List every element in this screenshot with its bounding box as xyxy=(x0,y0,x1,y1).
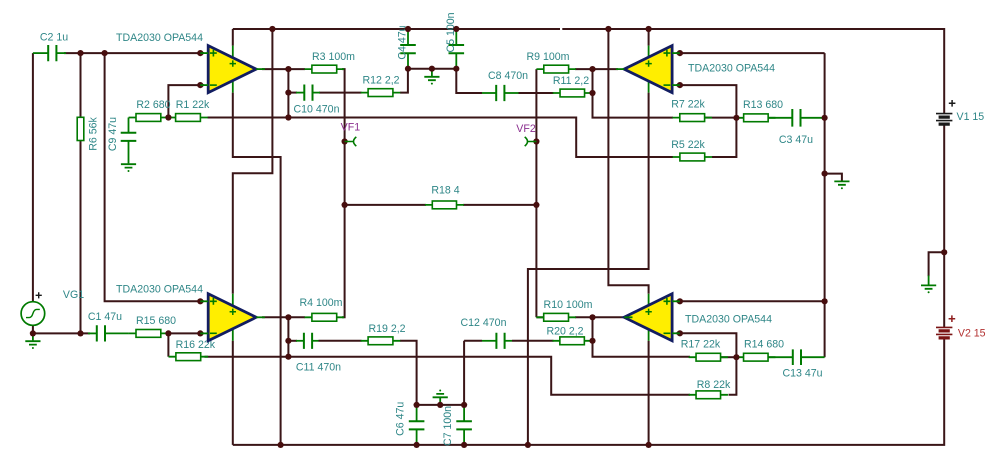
node supply mid ground tap xyxy=(941,249,947,255)
resistor R13 xyxy=(736,114,775,122)
wire C9 top lead from R2 xyxy=(128,118,130,134)
svg-text:C7 100n: C7 100n xyxy=(442,406,454,446)
resistor R5 xyxy=(673,153,713,161)
wire R12 right corner up to C4 node xyxy=(400,69,408,93)
svg-text:R4 100m: R4 100m xyxy=(300,297,343,309)
svg-text:R13 680: R13 680 xyxy=(743,99,783,111)
wire C2 right lead xyxy=(56,52,66,54)
node C3 right / right column xyxy=(822,115,828,121)
ground right of C3 xyxy=(834,181,849,189)
op-amp U4 TDA2030 OPA544 xyxy=(624,294,672,341)
svg-text:R12 2,2: R12 2,2 xyxy=(362,75,399,87)
node C3 ground tap xyxy=(822,171,828,177)
node U4 + input / right column xyxy=(822,298,828,304)
wire op-amp U1 V+ pin to rail xyxy=(232,29,234,46)
node VG1 / C1 row xyxy=(30,330,36,336)
wire C10 lead from branch xyxy=(288,92,297,94)
wire U3 + input pin stub xyxy=(200,300,208,302)
svg-text:VG1: VG1 xyxy=(63,289,84,301)
wire C8 left lead xyxy=(482,92,496,94)
wire C2 to U1 + input xyxy=(64,52,204,54)
node C4 bottom / R12 xyxy=(405,66,411,72)
capacitor C5 xyxy=(449,45,465,53)
capacitor C8 xyxy=(496,85,504,101)
resistor R8 xyxy=(689,391,728,399)
wire supply mid-point ground stem xyxy=(929,252,945,276)
wire C12 to R20 xyxy=(512,340,554,342)
wire R3 right corner down VF1 R18 to R4 right xyxy=(342,69,345,317)
node C5 bottom / C8 xyxy=(453,66,459,72)
op-amp U2 TDA2030 OPA544 xyxy=(624,46,672,93)
svg-text:R3 100m: R3 100m xyxy=(312,51,355,63)
capacitor C1 xyxy=(97,325,105,341)
wire C8 right lead xyxy=(504,92,518,94)
svg-text:TDA2030 OPA544: TDA2030 OPA544 xyxy=(116,284,203,296)
wire U2 - input pin stub xyxy=(672,84,680,86)
wire U1 output row xyxy=(262,68,288,70)
svg-text:TDA2030 OPA544: TDA2030 OPA544 xyxy=(685,314,772,326)
wire C12 left corner down to ground node xyxy=(463,341,465,405)
wire R7 right lead to junction xyxy=(705,117,736,119)
resistor R4 xyxy=(305,313,345,321)
wire U2 V+ pin to rail xyxy=(648,29,650,46)
op-amp U3 TDA2030 OPA544 xyxy=(208,294,256,341)
wire C9 branch vertical to U3 + input xyxy=(105,53,204,301)
svg-text:R2 680: R2 680 xyxy=(136,99,170,111)
node U4 - input pin xyxy=(677,330,683,336)
node bottom rail / C7 xyxy=(461,442,467,448)
node VF1 test point xyxy=(342,138,348,144)
node R15 / R16 branch xyxy=(165,330,171,336)
wire C3 left lead xyxy=(768,117,792,119)
node R18 left / VF1 column xyxy=(342,202,348,208)
node R11 right xyxy=(589,90,595,96)
node bottom rail / C6 xyxy=(414,442,420,448)
wire R16 long row to R8 jog xyxy=(205,357,691,395)
node R18 right / VF2 column xyxy=(533,202,539,208)
node C2 / C9 branch xyxy=(102,50,108,56)
svg-text:R5 22k: R5 22k xyxy=(671,139,705,151)
wire C1 left lead xyxy=(88,332,97,334)
svg-text:R9 100m: R9 100m xyxy=(527,51,570,63)
svg-text:R11 2,2: R11 2,2 xyxy=(553,75,589,87)
wire top V+ rail (right segment) and V1 feed xyxy=(562,29,944,114)
node U2 - input pin xyxy=(677,82,683,88)
capacitor C10 xyxy=(304,85,312,101)
wire U4 V- pin to bottom rail xyxy=(648,341,650,445)
wire op-amp U3 V- pin down to bottom rail xyxy=(232,341,234,445)
node R10 / U4 output xyxy=(589,314,595,320)
wire U2 + input to right column xyxy=(676,52,825,54)
wire C3 right lead xyxy=(801,117,825,119)
wire U2 - input to R7 junction xyxy=(676,85,736,118)
wire U1 output to R3 xyxy=(288,68,305,70)
resistor R10 xyxy=(536,313,576,321)
wire R9 left corner / VF2 column xyxy=(535,69,537,317)
capacitor C11 xyxy=(304,333,312,349)
ground below C4 C5 xyxy=(424,77,439,85)
svg-text:R7 22k: R7 22k xyxy=(671,99,705,111)
ground below VG1 xyxy=(25,341,40,349)
wire U1 output stub xyxy=(256,68,265,70)
capacitor C2 xyxy=(48,45,56,61)
capacitor C13 xyxy=(793,349,801,365)
node ground row / C6 xyxy=(414,402,420,408)
wire R9 to U2 output xyxy=(575,68,618,70)
resistor R15 xyxy=(129,330,169,338)
node R17 / R14 / R8 xyxy=(733,354,739,360)
wire C5 bottom lead xyxy=(455,54,457,69)
node C2 / R6 branch xyxy=(77,50,83,56)
wire R16 branch down xyxy=(167,333,169,356)
node R9 / U2 output xyxy=(589,66,595,72)
svg-text:C6 47u: C6 47u xyxy=(394,402,406,436)
wire U3 - input pin stub xyxy=(200,332,208,334)
svg-text:R1 22k: R1 22k xyxy=(176,99,210,111)
svg-text:C9 47u: C9 47u xyxy=(107,117,119,151)
resistor R6 xyxy=(77,117,84,140)
wire C6 bottom lead xyxy=(416,430,418,445)
generator VG1 xyxy=(21,302,45,326)
node decoupling ground xyxy=(429,66,435,72)
svg-text:R19 2,2: R19 2,2 xyxy=(368,323,405,335)
battery V1 xyxy=(936,114,952,125)
node bottom rail / U4 V- pin xyxy=(646,442,652,448)
wire C4 C5 decoupling node row xyxy=(408,68,456,70)
svg-text:VF2: VF2 xyxy=(516,123,536,135)
node U3 output / R16 row xyxy=(285,354,291,360)
capacitor C3 xyxy=(792,109,800,127)
wire right column from U2 + input down to C13 corner xyxy=(824,53,826,357)
wire R17 right lead to junction xyxy=(721,356,736,358)
node U3 output / C11 xyxy=(285,338,291,344)
wire bottom V- rail xyxy=(233,338,944,445)
ground below C9 xyxy=(121,164,136,172)
wire rail branch x=272 down through crossover to U3 V+ pin xyxy=(233,29,273,294)
node R20 right xyxy=(589,338,595,344)
capacitor C7 xyxy=(456,421,472,429)
wire U2 output stub xyxy=(616,68,624,70)
wire C11 lead from branch xyxy=(288,340,297,342)
wire U4 + input row xyxy=(676,300,825,302)
capacitor C4 xyxy=(400,45,416,53)
resistor R17 xyxy=(689,353,728,361)
wire R19 right corner down to ground node xyxy=(400,341,417,405)
wire R6 branch vertical xyxy=(80,53,82,333)
testpoint VF2 hook xyxy=(525,137,537,146)
node rail / C5 xyxy=(453,26,459,32)
node U1 output / C10 xyxy=(285,90,291,96)
wire top V+ rail (left segment) xyxy=(233,28,560,30)
svg-text:R20 2,2: R20 2,2 xyxy=(546,325,583,337)
resistor R19 xyxy=(361,337,401,345)
node U3 - input pin xyxy=(197,330,203,336)
wire C12 right lead xyxy=(505,340,512,342)
resistor R2 xyxy=(129,114,169,122)
wire C3 ground stem xyxy=(825,174,842,181)
svg-text:R17 22k: R17 22k xyxy=(681,339,721,351)
resistor R20 xyxy=(552,337,591,345)
wire ground node row C6 C7 xyxy=(417,404,465,406)
wire C8 to R11 xyxy=(519,92,554,94)
wire C1 right lead to R15 xyxy=(105,332,129,334)
capacitor C6 xyxy=(409,421,425,429)
resistor R14 xyxy=(736,353,775,361)
wire C4 bottom lead xyxy=(407,54,409,69)
svg-text:C12 470n: C12 470n xyxy=(461,317,507,329)
wire U2 + input pin stub xyxy=(672,52,680,54)
resistor R11 xyxy=(553,89,592,97)
node U1 output / R3 xyxy=(285,66,291,72)
svg-text:R18 4: R18 4 xyxy=(431,185,459,197)
wire U3 output stub xyxy=(256,316,265,318)
wire mid decoupling ground stem xyxy=(431,69,433,76)
wire C10 left lead xyxy=(296,92,304,94)
wire VG1 output node row (C1/R15) xyxy=(33,325,90,333)
wire input column from C2 to VG1 xyxy=(32,53,34,302)
wire U3 output branch down xyxy=(287,317,289,356)
wire R10 to U4 output xyxy=(575,316,630,318)
node R1 / feedback row xyxy=(285,114,291,120)
wire C7 top lead xyxy=(463,405,465,421)
wire C5 node down to C8 xyxy=(456,69,482,93)
node VF2 test point xyxy=(533,138,539,144)
wire R10 left from VF2 column xyxy=(536,316,546,318)
node R7 / R13 / R5 xyxy=(733,115,739,121)
wire C11 right lead xyxy=(312,340,318,342)
capacitor C9 xyxy=(121,133,137,141)
svg-text:R10 100m: R10 100m xyxy=(544,299,593,311)
wire R5 right corner up to R7 junction xyxy=(712,118,736,157)
wire supply mid ground stem green xyxy=(928,276,930,286)
svg-text:R8 22k: R8 22k xyxy=(697,379,731,391)
node rail / x272 branch xyxy=(269,26,275,32)
wire R18 right lead xyxy=(463,204,536,206)
svg-text:R6 56k: R6 56k xyxy=(88,117,100,151)
wire U3 output row xyxy=(262,316,305,318)
wire C13 left lead xyxy=(768,356,793,358)
svg-text:VF1: VF1 xyxy=(341,121,361,133)
wire U4 - input pin stub xyxy=(672,332,680,334)
resistor R18 xyxy=(425,201,464,209)
wire C7 bottom lead xyxy=(463,430,465,445)
svg-text:C8 470n: C8 470n xyxy=(488,70,528,82)
resistor R1 xyxy=(168,114,208,122)
node rail / U2 V+ pin xyxy=(646,26,652,32)
wire R11 right junction chain down and to R7 xyxy=(593,69,674,118)
op-amp U1 TDA2030 OPA544 xyxy=(208,46,256,93)
wire C10 to R12 xyxy=(319,92,362,94)
wire R10/R20 junction column down to R17 xyxy=(593,317,691,356)
testpoint VF1 hook xyxy=(345,137,357,146)
wire C2 left lead xyxy=(33,52,48,54)
wire U1 - input to R1/R2 junction xyxy=(168,85,204,117)
node rail / C4 xyxy=(405,26,411,32)
node bottom rail / x528 xyxy=(525,442,531,448)
resistor R12 xyxy=(361,89,401,97)
node R2 / R1 junction xyxy=(165,114,171,120)
wire U1 output branch down xyxy=(287,69,289,117)
node ground row / C7 xyxy=(461,402,467,408)
ground between V1 and V2 xyxy=(921,285,936,293)
wire C11 left lead xyxy=(296,340,304,342)
svg-text:TDA2030 OPA544: TDA2030 OPA544 xyxy=(116,32,203,44)
wire R8 right corner up to R17/R14 junction xyxy=(729,357,737,395)
wire C9 ground stem xyxy=(128,140,130,163)
wire R15 to U3 - input xyxy=(168,332,204,334)
node U2 + input pin xyxy=(677,50,683,56)
wire C10 right lead xyxy=(313,92,321,94)
resistor R7 xyxy=(672,114,712,122)
wire C5 top lead xyxy=(455,29,457,45)
wire R1 long feedback row to right side xyxy=(208,118,674,158)
wire C12 left lead xyxy=(482,340,496,342)
wire U2 V- pin down to crossover right xyxy=(528,93,649,445)
wire C4 top lead xyxy=(407,29,409,45)
wire V1 to mid junction to V2 xyxy=(943,124,945,327)
svg-text:V2 15: V2 15 xyxy=(958,327,986,339)
wire C11 to R19 xyxy=(319,340,362,342)
svg-text:R14 680: R14 680 xyxy=(744,339,784,351)
battery V2 plus mark xyxy=(949,315,956,322)
svg-text:C13 47u: C13 47u xyxy=(782,368,822,380)
node U3 + input pin xyxy=(197,298,203,304)
wire U1 - input pin stub xyxy=(200,84,208,86)
wire op-amp U1 V- pin down to crossover xyxy=(233,93,281,445)
capacitor C12 xyxy=(496,333,504,349)
wire inverted ground stem xyxy=(439,397,441,405)
node bottom rail / x280 xyxy=(278,442,284,448)
svg-text:C11 470n: C11 470n xyxy=(296,362,341,374)
wire rail branch x=608 down to U4 V+ pin xyxy=(608,29,648,294)
battery V1 plus mark xyxy=(949,100,956,107)
resistor R16 xyxy=(169,353,209,361)
wire U4 - input to R17/R14 junction xyxy=(676,333,736,357)
resistor R9 xyxy=(536,65,576,73)
node U4 + input pin xyxy=(677,298,683,304)
ground above C6 C7 node xyxy=(433,390,448,398)
wire U4 + input pin stub xyxy=(672,300,680,302)
wire R18 left lead xyxy=(345,204,426,206)
node R6 bottom / C1 row xyxy=(77,330,83,336)
svg-text:C3 47u: C3 47u xyxy=(779,134,813,146)
svg-text:C1 47u: C1 47u xyxy=(88,311,122,323)
resistor R3 xyxy=(305,65,345,73)
wire VG1 ground stem xyxy=(32,333,34,340)
svg-text:C10 470n: C10 470n xyxy=(294,104,340,116)
node ground row / stem xyxy=(437,402,443,408)
wire C13 right lead xyxy=(801,356,825,358)
svg-text:TDA2030 OPA544: TDA2030 OPA544 xyxy=(688,63,775,75)
svg-text:C5 100n: C5 100n xyxy=(445,12,457,52)
node U3 output / R4 xyxy=(285,314,291,320)
node U1 + input pin xyxy=(197,50,203,56)
wire U1 + input pin stub xyxy=(200,52,208,54)
svg-text:V1 15: V1 15 xyxy=(957,111,985,123)
wire C12 lead wire xyxy=(464,340,482,342)
node U1 - input pin xyxy=(197,82,203,88)
svg-text:R15 680: R15 680 xyxy=(136,315,176,327)
battery V2 xyxy=(936,327,952,338)
generator VG1 plus mark xyxy=(36,292,42,298)
wire U4 output stub xyxy=(624,316,632,318)
node rail / x608 branch xyxy=(605,26,611,32)
svg-text:C2 1u: C2 1u xyxy=(40,32,68,44)
wire C6 top lead xyxy=(416,405,418,421)
